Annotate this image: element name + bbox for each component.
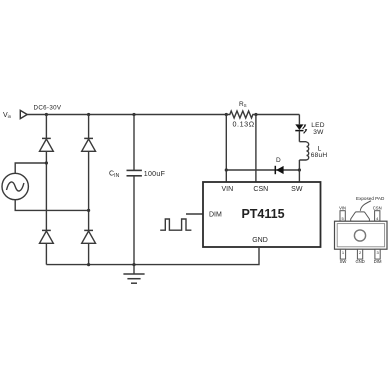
package body outer [335,221,388,249]
node pin number 1 [342,250,345,255]
node junction rail/col2 [87,113,90,116]
inductor L1 [299,142,308,160]
package pin 3 (bottom-right) [375,249,380,259]
ground symbol [123,265,144,284]
package body inner [337,224,384,247]
package pin 2 (bottom-middle) [357,249,362,259]
node junction rail/col1 [45,113,48,116]
node PT4115 part label [241,207,284,221]
svg-text:Exposed PAD: Exposed PAD [356,196,385,201]
wire bridge column1 upper [45,115,47,139]
node Vin input label [3,112,12,119]
node DIM bottom label (package) [374,259,382,264]
wire inductor to SW node [298,160,300,170]
wire bridge column1 middle [45,151,47,230]
node Rs label [239,101,247,108]
LED LED1 [295,124,307,133]
input buffer triangle Vin [20,110,27,118]
node L 68uH label [311,145,328,159]
node D label [276,157,281,164]
node pin number 4 [376,216,379,221]
node junction VIN-line/D-wire [225,168,228,171]
wire top VIN rail (left of Rs) [27,114,226,116]
wire VIN branch [225,115,227,183]
node junction AC-bottom/col2 [87,209,90,212]
node 0.13 ohm value label [233,120,255,129]
wire freewheel diode net [226,169,299,171]
package drawing SOT89-5 [335,196,388,264]
node GND bottom label (package) [355,259,364,264]
svg-text:GND: GND [252,237,268,244]
node SW bottom label (package) [340,259,347,264]
node CSN top label (package) [373,205,382,210]
node GND pin label [252,237,268,244]
diode D (freewheeling) [275,166,283,174]
node VIN pin label [221,186,233,193]
AC source V1 [2,173,28,199]
node junction rail/Cin [132,113,135,116]
wire AC top to column1 [15,163,46,173]
node pin number 2 [359,250,362,255]
svg-text:CSN: CSN [253,186,268,193]
resistor Rs [226,111,256,118]
node Cin label [109,171,120,179]
svg-text:68uH: 68uH [311,152,328,159]
wire AC bottom to column2 [15,200,88,211]
diode bridge D2 (upper-right) [82,138,96,151]
svg-text:0.13Ω: 0.13Ω [233,120,255,129]
node VIN top label (package) [339,205,346,210]
wire Cin upper [133,115,135,171]
svg-text:D: D [276,157,281,164]
svg-text:CSN: CSN [373,205,382,210]
wire bridge column2 upper [88,115,90,139]
diode bridge D1 (upper-left) [40,138,54,151]
wire SW pin drop [298,170,300,182]
wire LED branch drop [298,115,300,125]
wire Cin lower [133,176,135,265]
node junction rail/ground [132,263,135,266]
svg-text:PT4115: PT4115 [241,207,284,221]
wire exposed pad pointer [360,201,371,211]
wire bridge column2 middle [88,151,90,230]
square wave PWM symbol [160,219,191,230]
svg-text:3W: 3W [313,129,324,136]
package exposed pad tab [351,212,370,222]
wire DIM pin [186,213,203,215]
wire bottom GND rail [46,247,259,265]
svg-text:GND: GND [355,259,364,264]
wire bridge column1 lower [45,243,47,264]
diode bridge D3 (lower-left) [40,230,54,243]
svg-text:VIN: VIN [221,186,233,193]
node pin number 5 [341,216,344,221]
svg-text:VIN: VIN [339,205,346,210]
node junction rail/CSN-branch [254,113,257,116]
package center circle [354,230,365,241]
node 100uF value label [144,171,165,178]
wire top VIN rail (right of Rs) [256,114,300,116]
node SW pin label [291,186,303,193]
op-amp U1 PT4115 IC box [203,182,321,247]
node junction rail/col2 bottom [87,263,90,266]
node junction rail/VIN-branch [225,113,228,116]
package pin 5 (top-left) [340,211,345,221]
node junction SW-line/D-wire [298,168,301,171]
svg-text:SW: SW [340,259,347,264]
node DIM pin label [209,212,222,219]
node DC6-30V label [34,105,62,112]
package pin 1 (bottom-left) [340,249,345,259]
wire bridge column2 lower [88,243,90,264]
node LED 3W label [311,122,324,136]
node pin number 3 [376,250,379,255]
svg-text:SW: SW [291,186,303,193]
node junction AC-top/col1 [45,161,48,164]
wire LED to inductor [298,131,300,142]
node Exposed PAD label [356,196,385,201]
svg-text:DIM: DIM [374,259,382,264]
svg-text:DIM: DIM [209,212,222,219]
diode bridge D4 (lower-right) [82,230,96,243]
capacitor Cin [127,170,142,175]
wire CSN branch [255,115,257,183]
svg-text:DC6-30V: DC6-30V [34,105,62,112]
package pin 4 (top-right) [375,211,380,221]
node CSN pin label [253,186,268,193]
svg-text:100uF: 100uF [144,171,165,178]
